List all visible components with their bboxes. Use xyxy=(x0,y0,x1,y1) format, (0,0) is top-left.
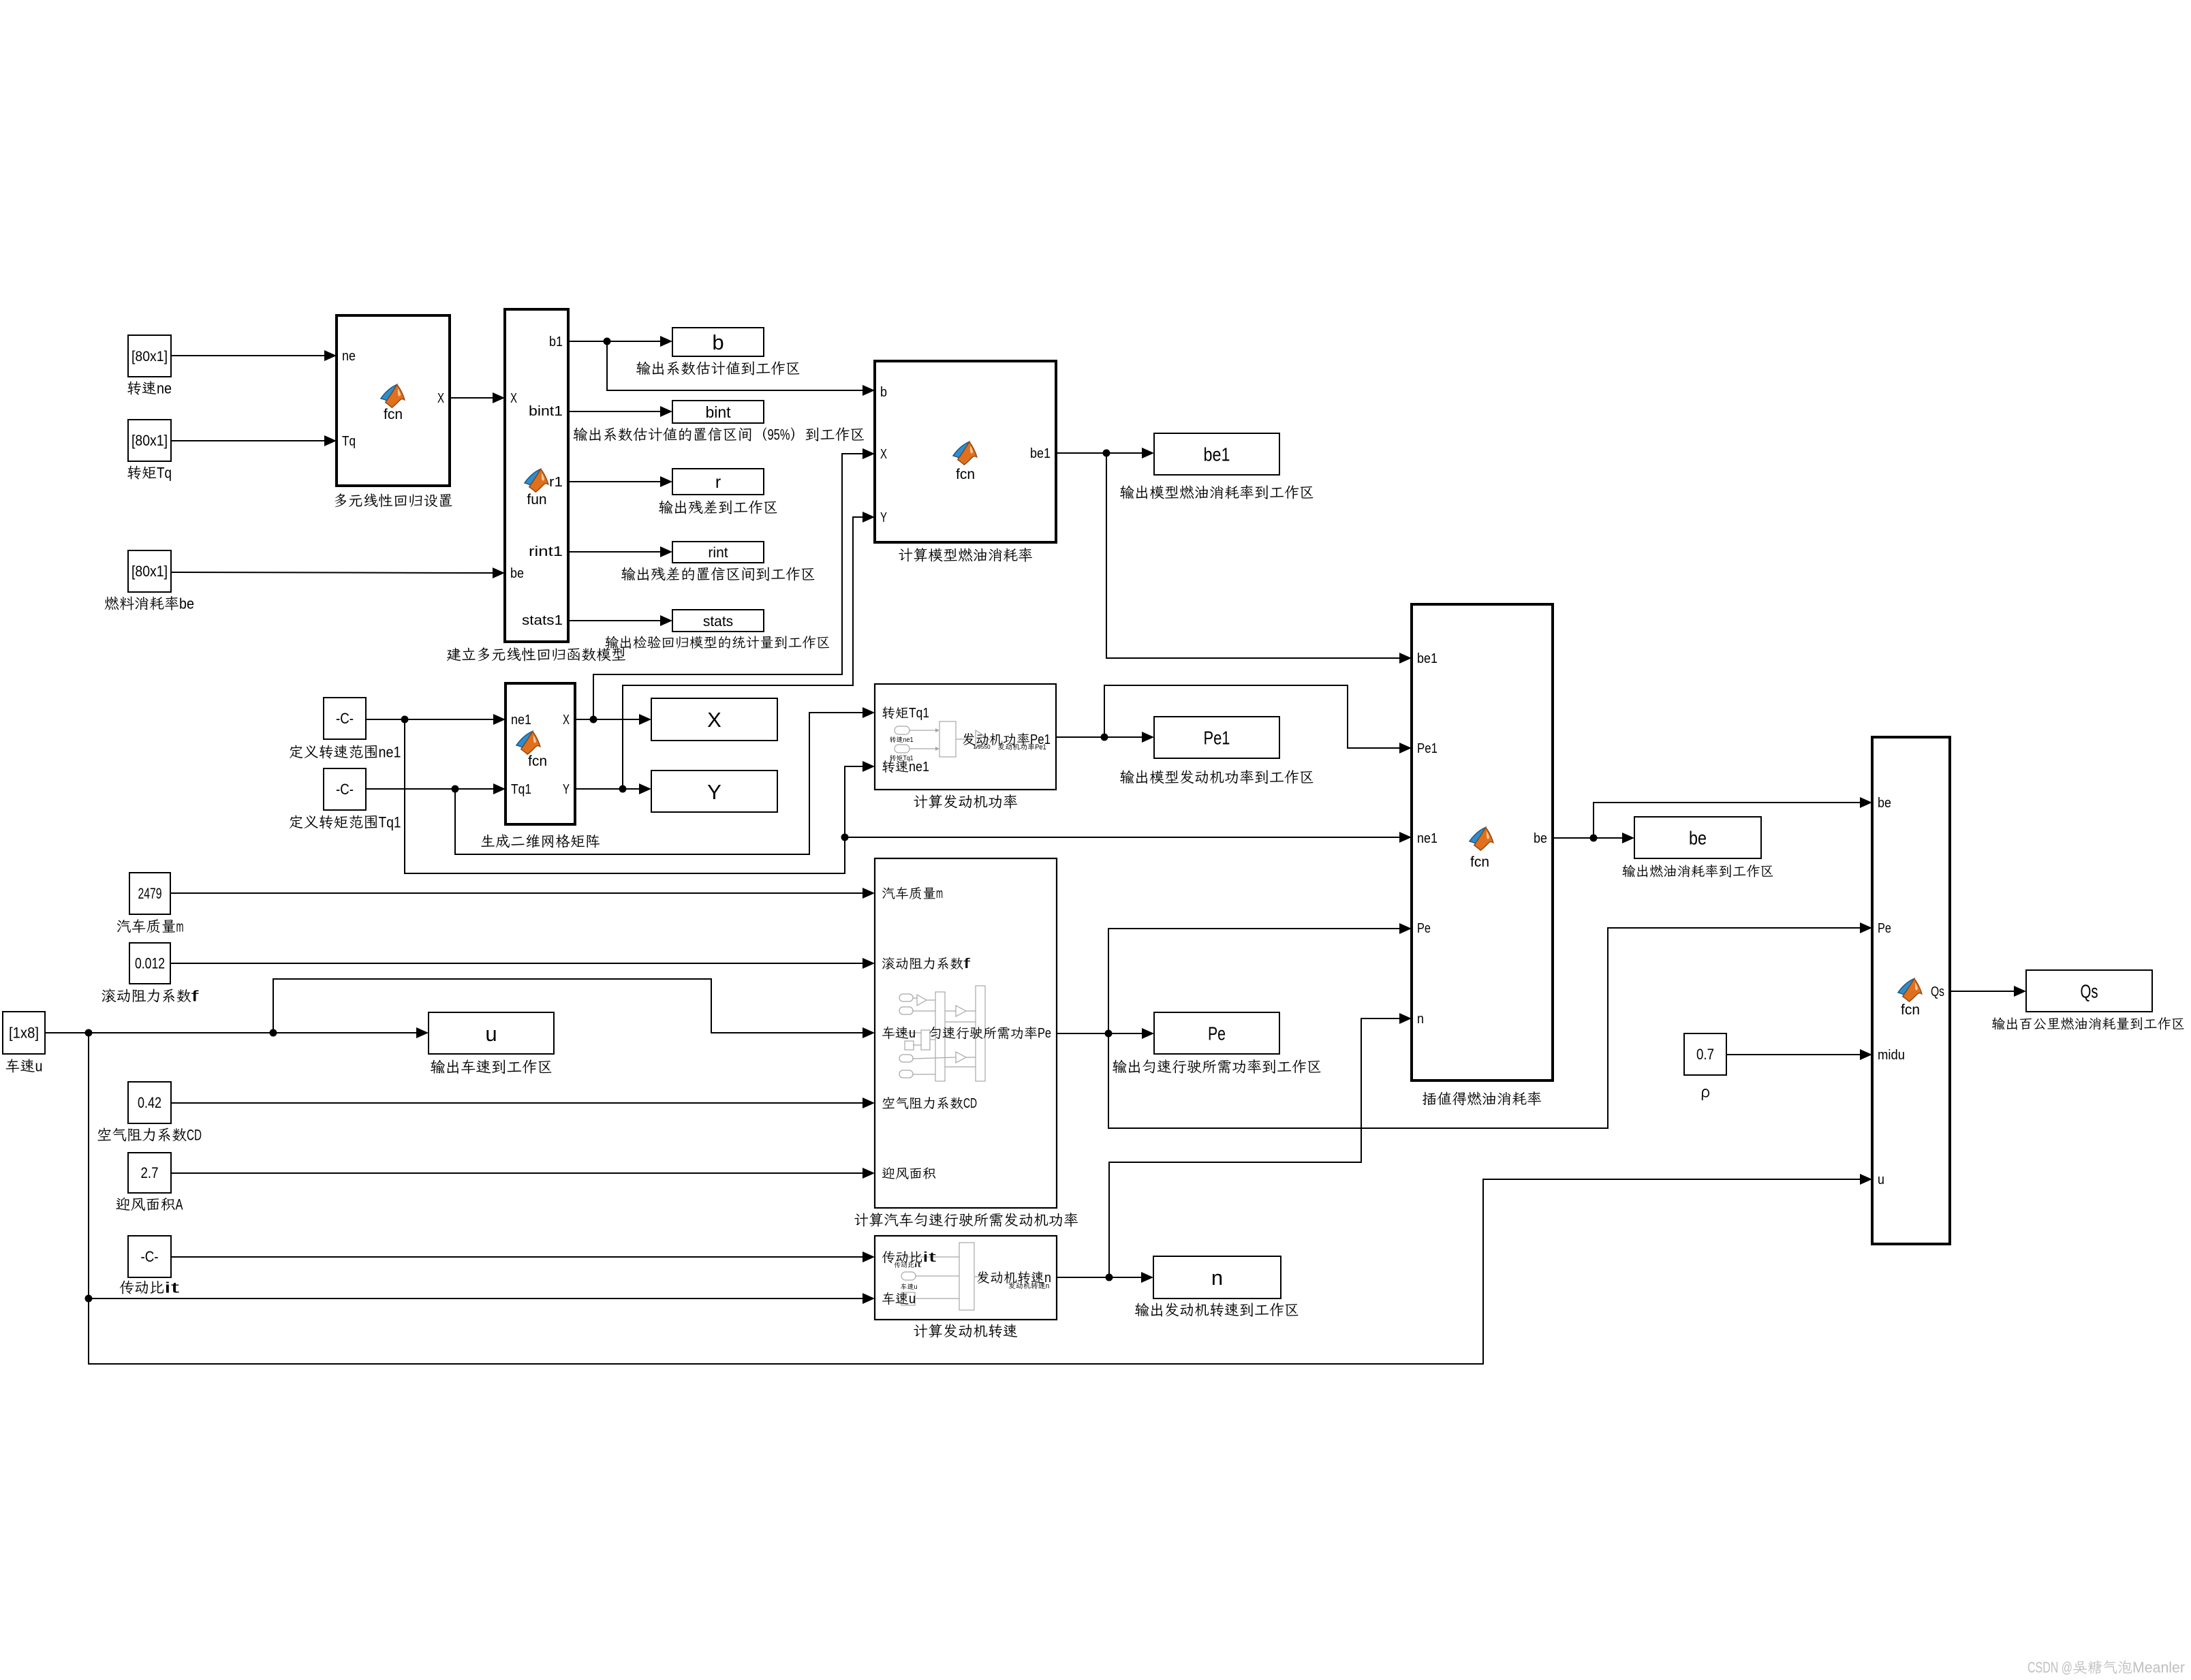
wire F1 X output to regression model X input xyxy=(450,397,493,399)
svg-text:b1: b1 xyxy=(549,335,563,349)
wire -C- ne1 constant to grid fcn ne1 input xyxy=(366,719,493,720)
caption 定义转矩范围Tq1 xyxy=(290,815,302,829)
wire be1 branch to 插值得燃油消耗率 be1 input xyxy=(1106,453,1399,658)
svg-text:ne1: ne1 xyxy=(511,713,531,728)
caption 计算发动机功率 xyxy=(914,794,927,808)
subsystem preview contents F6 xyxy=(888,986,995,1081)
caption 迎风面积A xyxy=(116,1198,129,1211)
svg-text:be1: be1 xyxy=(1417,651,1438,666)
caption 燃料消耗率be xyxy=(105,597,119,610)
svg-text:u: u xyxy=(909,1026,916,1041)
svg-text:[80x1]: [80x1] xyxy=(131,349,168,364)
wire be branch to 百公里 fcn be input xyxy=(1594,803,1860,838)
svg-text:2.7: 2.7 xyxy=(141,1164,159,1181)
svg-text:Qs: Qs xyxy=(2081,981,2098,1002)
to-workspace display X xyxy=(651,698,777,741)
matlab logo F1 xyxy=(381,385,405,408)
svg-text:n: n xyxy=(1211,1266,1223,1290)
wire u branch to 百公里 fcn u input xyxy=(89,1033,1860,1364)
svg-text:ne1: ne1 xyxy=(909,760,929,775)
caption 输出百公里燃油消耗量到工作区 xyxy=(1992,1017,2005,1029)
svg-text:m: m xyxy=(936,886,943,901)
svg-text:-C-: -C- xyxy=(336,710,354,727)
matlab logo F9 xyxy=(1898,979,1922,1002)
svg-text:Tq: Tq xyxy=(342,434,356,449)
svg-text:be: be xyxy=(1689,828,1707,849)
svg-text:bint: bint xyxy=(705,403,731,421)
caption 建立多元线性回归函数模型 xyxy=(447,648,461,662)
wire 转矩Tq source to fcn Tq input xyxy=(171,440,324,441)
svg-text:ne1: ne1 xyxy=(1417,831,1438,846)
tiny label 传动比it xyxy=(894,1262,900,1268)
source block 滚动阻力系数f xyxy=(129,943,170,984)
caption 输出模型发动机功率到工作区 xyxy=(1120,771,1134,784)
wire Y branch to 计算模型燃油消耗率 Y input xyxy=(623,517,863,789)
wire Pe branch to 插值得燃油消耗率 Pe input xyxy=(1108,929,1399,1033)
svg-text:Tq1: Tq1 xyxy=(379,813,401,830)
wire b1 output to b display xyxy=(568,341,660,342)
source block 转速ne xyxy=(128,335,171,377)
tiny label 发动机转速n xyxy=(1009,1282,1016,1289)
junction be branch xyxy=(1590,835,1598,842)
svg-text:X: X xyxy=(510,391,517,406)
svg-text:f: f xyxy=(963,956,971,971)
matlab logo F8 xyxy=(1470,828,1493,851)
caption 滚动阻力系数f xyxy=(102,989,116,1002)
caption 插值得燃油消耗率 xyxy=(1423,1092,1436,1105)
tiny label 转矩Tq1 xyxy=(890,755,896,761)
caption 计算汽车匀速行驶所需发动机功率 xyxy=(854,1213,868,1226)
caption 空气阻力系数CD xyxy=(97,1127,110,1140)
svg-text:0.7: 0.7 xyxy=(1696,1046,1714,1063)
caption 车速u xyxy=(6,1059,20,1072)
svg-text:fcn: fcn xyxy=(528,753,547,769)
matlab logo F2 xyxy=(525,469,548,493)
svg-text:[80x1]: [80x1] xyxy=(131,563,168,580)
subsystem 计算汽车匀速行驶所需发动机功率 xyxy=(875,858,1057,1208)
junction n branch xyxy=(1106,1274,1113,1281)
svg-text:f: f xyxy=(191,987,200,1004)
junction u main xyxy=(85,1029,93,1037)
junction Pe1 branch xyxy=(1101,734,1108,741)
source block 迎风面积A xyxy=(128,1153,171,1193)
svg-text:0.42: 0.42 xyxy=(138,1094,161,1111)
svg-text:it: it xyxy=(164,1279,179,1296)
wire 燃料消耗率be source to regression model be input xyxy=(171,572,493,573)
svg-text:A: A xyxy=(176,1196,183,1213)
svg-text:ne: ne xyxy=(157,379,172,396)
svg-text:-C-: -C- xyxy=(336,781,354,798)
wire n branch to 插值得燃油消耗率 n input xyxy=(1109,1018,1399,1277)
svg-text:u: u xyxy=(35,1057,43,1074)
wire 2.7 to 迎风面积 input xyxy=(171,1172,863,1174)
wire grid Y output to Y display xyxy=(575,788,639,790)
svg-text:be1: be1 xyxy=(1030,446,1051,461)
svg-text:Y: Y xyxy=(880,510,887,525)
svg-text:it: it xyxy=(922,1250,937,1265)
caption ρ xyxy=(1702,1089,1709,1100)
fcn block 多元线性回归设置 xyxy=(337,315,450,486)
wire u branch to 车速u input of power subsystem xyxy=(273,979,863,1033)
svg-text:CSDN @: CSDN @ xyxy=(2027,1659,2072,1676)
matlab logo F3 xyxy=(516,732,540,755)
source block 转矩Tq xyxy=(128,420,171,461)
svg-text:be: be xyxy=(1878,796,1891,811)
port label 汽车质量m xyxy=(882,887,895,899)
junction ne1 branch xyxy=(401,716,409,724)
tiny label 转速ne1 xyxy=(890,736,896,743)
wire X branch to 计算模型燃油消耗率 X input xyxy=(593,454,863,719)
to-workspace display rint xyxy=(672,542,764,563)
caption 输出检验回归模型统计量 xyxy=(605,636,619,648)
fcn block 生成二维网格矩阵 xyxy=(506,683,575,824)
caption 输出燃油消耗率到工作区 xyxy=(1622,865,1635,877)
port label 转矩Tq1 xyxy=(882,706,895,719)
wire 2479 to 汽车质量m input xyxy=(170,892,863,894)
caption 多元线性回归设置 xyxy=(335,493,346,507)
caption 输出模型燃油消耗率到工作区 xyxy=(1120,486,1134,499)
svg-text:Y: Y xyxy=(563,782,570,797)
tiny label 发动机功率Pe1 xyxy=(998,743,1005,750)
caption 输出发动机转速到工作区 xyxy=(1135,1303,1149,1317)
caption 输出残差的置信区间到工作区 xyxy=(621,567,636,581)
svg-text:Tq1: Tq1 xyxy=(909,706,929,721)
caption 计算模型燃油消耗率 xyxy=(899,548,912,561)
wire ne1 branch to 计算发动机功率 转速ne1 input xyxy=(405,719,863,873)
svg-text:u: u xyxy=(914,1284,918,1291)
to-workspace display u xyxy=(429,1012,554,1054)
matlab logo F4 xyxy=(953,442,977,465)
svg-text:it: it xyxy=(914,1262,921,1269)
to-workspace display r xyxy=(672,469,764,495)
svg-text:midu: midu xyxy=(1878,1048,1905,1063)
caption 生成二维网格矩阵 xyxy=(481,835,495,847)
junction X branch xyxy=(590,716,597,724)
svg-text:Pe: Pe xyxy=(1038,1026,1051,1041)
junction u to subsystem xyxy=(270,1029,277,1037)
svg-text:u: u xyxy=(485,1022,497,1046)
svg-text:fcn: fcn xyxy=(1470,854,1489,870)
to-workspace display Y xyxy=(651,771,777,812)
port label 车速u xyxy=(882,1027,895,1039)
junction Tq1 branch xyxy=(452,785,459,793)
svg-text:m: m xyxy=(176,918,184,935)
port label 发动机功率Pe1 xyxy=(963,733,975,745)
to-workspace display stats xyxy=(672,610,764,632)
junction b1 branch xyxy=(604,338,611,345)
svg-text:fcn: fcn xyxy=(384,407,403,422)
svg-text:Pe1: Pe1 xyxy=(1204,728,1230,749)
svg-text:X: X xyxy=(563,713,570,728)
to-workspace display Pe1 xyxy=(1154,717,1279,758)
wire 车速u source to u display xyxy=(45,1032,416,1033)
wire Pe output to Pe display xyxy=(1057,1033,1142,1034)
wire b1 branch to 计算模型燃油消耗率 b input xyxy=(607,341,863,390)
wire Pe branch to 百公里 fcn Pe input xyxy=(1108,928,1860,1128)
wire 0.7 to midu input xyxy=(1726,1054,1860,1055)
subsystem 计算发动机功率 xyxy=(875,684,1056,790)
wire ne1 branch to 插值得燃油消耗率 ne1 input xyxy=(845,837,1399,838)
subsystem preview contents F7 xyxy=(901,1243,988,1310)
svg-text:n: n xyxy=(1044,1271,1051,1286)
svg-text:Tq: Tq xyxy=(157,464,172,481)
wire r1 output to r display xyxy=(568,481,660,482)
svg-text:CD: CD xyxy=(963,1096,977,1111)
svg-text:X: X xyxy=(880,447,887,462)
source block 空气阻力系数CD xyxy=(128,1082,171,1123)
wire 0.012 to 滚动阻力系数f input xyxy=(170,963,863,964)
caption 输出残差到工作区 xyxy=(659,501,673,514)
svg-text:be: be xyxy=(1534,831,1547,846)
caption 输出车速到工作区 xyxy=(431,1060,445,1074)
to-workspace display Qs xyxy=(2026,970,2152,1012)
wire Qs output to Qs display xyxy=(1950,991,2014,992)
wire be1 output to be1 display xyxy=(1056,452,1142,454)
svg-text:[1x8]: [1x8] xyxy=(9,1025,39,1042)
svg-text:rint1: rint1 xyxy=(529,544,563,559)
port label 车速u xyxy=(882,1292,895,1305)
svg-text:Qs: Qs xyxy=(1931,984,1944,999)
svg-text:1/9550: 1/9550 xyxy=(973,743,991,750)
svg-text:rint: rint xyxy=(708,545,728,561)
port label 空气阻力系数CD xyxy=(882,1097,895,1108)
junction Y branch xyxy=(619,785,627,793)
svg-text:Pe1: Pe1 xyxy=(1030,732,1051,747)
subsystem preview contents F5 xyxy=(895,721,989,757)
junction u to engine speed xyxy=(85,1295,93,1303)
port label 转速ne1 xyxy=(882,760,895,773)
svg-text:r1: r1 xyxy=(549,475,563,490)
wire rint1 output to rint display xyxy=(568,551,660,553)
fcn block 插值得燃油消耗率 xyxy=(1412,604,1553,1080)
svg-text:ne1: ne1 xyxy=(903,736,914,744)
svg-text:b: b xyxy=(880,385,887,400)
wire be output to be display xyxy=(1553,837,1622,839)
source block 定义转速范围ne1 xyxy=(324,698,366,739)
svg-text:be1: be1 xyxy=(1204,444,1230,465)
source block 燃料消耗率be xyxy=(128,550,171,592)
svg-text:ne1: ne1 xyxy=(379,743,401,760)
port label 传动比it xyxy=(882,1251,895,1263)
subsystem 计算发动机转速 xyxy=(875,1236,1057,1320)
svg-text:-C-: -C- xyxy=(141,1248,159,1265)
svg-text:fcn: fcn xyxy=(1901,1002,1920,1018)
wire Tq1 branch to 计算发动机功率 转矩Tq1 input xyxy=(455,713,863,854)
fcn block 计算模型燃油消耗率 xyxy=(875,361,1056,542)
caption 计算发动机转速 xyxy=(914,1324,927,1337)
svg-text:n: n xyxy=(1417,1012,1424,1027)
wire grid X output to X display xyxy=(575,719,639,720)
tiny label 车速u xyxy=(901,1284,907,1290)
svg-text:Pe: Pe xyxy=(1417,921,1431,936)
svg-text:0.012: 0.012 xyxy=(135,955,165,972)
svg-text:Tq1: Tq1 xyxy=(511,782,531,797)
wire 转速ne source to fcn ne input xyxy=(171,355,324,356)
caption 输出匀速行驶所需功率到工作区 xyxy=(1113,1060,1127,1074)
port label 匀速行驶所需功率Pe xyxy=(929,1027,940,1039)
svg-text:Pe: Pe xyxy=(1208,1023,1226,1044)
svg-text:2479: 2479 xyxy=(138,885,162,902)
svg-text:Pe: Pe xyxy=(1878,921,1891,936)
svg-text:b: b xyxy=(712,330,724,354)
to-workspace display bint xyxy=(672,401,764,423)
svg-text:Pe1: Pe1 xyxy=(1417,741,1438,756)
svg-text:u: u xyxy=(1878,1172,1884,1187)
source block 传动比it xyxy=(128,1236,171,1277)
svg-text:r: r xyxy=(715,473,721,492)
svg-text:[80x1]: [80x1] xyxy=(131,432,168,449)
svg-text:stats1: stats1 xyxy=(522,613,563,628)
caption 汽车质量m xyxy=(117,920,131,933)
svg-text:CD: CD xyxy=(187,1126,202,1143)
caption 定义转速范围ne1 xyxy=(290,745,302,759)
svg-text:X: X xyxy=(707,708,721,732)
watermark CSDN xyxy=(2027,1659,2185,1676)
wire 0.42 to 空气阻力系数CD input xyxy=(171,1102,863,1104)
to-workspace display b xyxy=(672,328,764,356)
port label 迎风面积 xyxy=(882,1167,895,1179)
svg-text:stats: stats xyxy=(703,614,733,629)
caption 转矩Tq xyxy=(127,466,141,480)
to-workspace display n xyxy=(1153,1256,1281,1298)
source block 车速u xyxy=(3,1012,45,1054)
fcn block 计算百公里燃油消耗量 xyxy=(1872,737,1950,1244)
caption 置信区间95% xyxy=(573,428,587,441)
to-workspace display be xyxy=(1634,817,1761,858)
svg-text:be: be xyxy=(510,566,524,581)
caption 转速ne xyxy=(127,382,141,395)
svg-text:be: be xyxy=(179,595,194,612)
port label 滚动阻力系数f xyxy=(882,957,895,969)
svg-text:fun: fun xyxy=(527,492,546,508)
wire bint1 output to bint display xyxy=(568,411,660,412)
to-workspace display be1 xyxy=(1154,433,1279,475)
svg-text:X: X xyxy=(437,391,444,406)
junction be1 branch xyxy=(1103,450,1110,457)
wire -C- 传动比it to 计算发动机转速 input xyxy=(171,1256,863,1258)
svg-text:u: u xyxy=(909,1292,916,1307)
junction ne1 to interp xyxy=(841,834,849,841)
svg-text:Y: Y xyxy=(707,780,721,804)
junction Pe branch xyxy=(1105,1030,1113,1038)
caption 传动比it xyxy=(120,1281,134,1294)
source block ρ xyxy=(1684,1033,1726,1075)
svg-text:bint1: bint1 xyxy=(529,404,563,419)
port label 发动机转速n xyxy=(977,1271,989,1284)
wire Pe1 output to Pe1 display xyxy=(1056,736,1142,738)
caption 输出系数估计值到工作区 xyxy=(636,362,651,375)
wire -C- Tq1 constant to grid fcn Tq1 input xyxy=(366,788,493,790)
fcn block 建立多元线性回归函数模型 xyxy=(505,309,568,642)
wire Pe1 branch to 插值得燃油消耗率 Pe1 input xyxy=(1104,685,1399,748)
svg-text:Meanler: Meanler xyxy=(2132,1659,2185,1676)
svg-text:95%: 95% xyxy=(768,426,790,443)
wire n output to n display xyxy=(1057,1277,1141,1278)
wire u branch to 计算发动机转速 车速u input xyxy=(89,1298,863,1299)
wire stats1 output to stats display xyxy=(568,620,660,621)
source block 汽车质量m xyxy=(129,873,170,914)
svg-text:ne: ne xyxy=(342,349,356,364)
svg-text:fcn: fcn xyxy=(956,467,975,482)
to-workspace display Pe xyxy=(1154,1012,1279,1054)
source block 定义转矩范围Tq1 xyxy=(324,768,366,810)
